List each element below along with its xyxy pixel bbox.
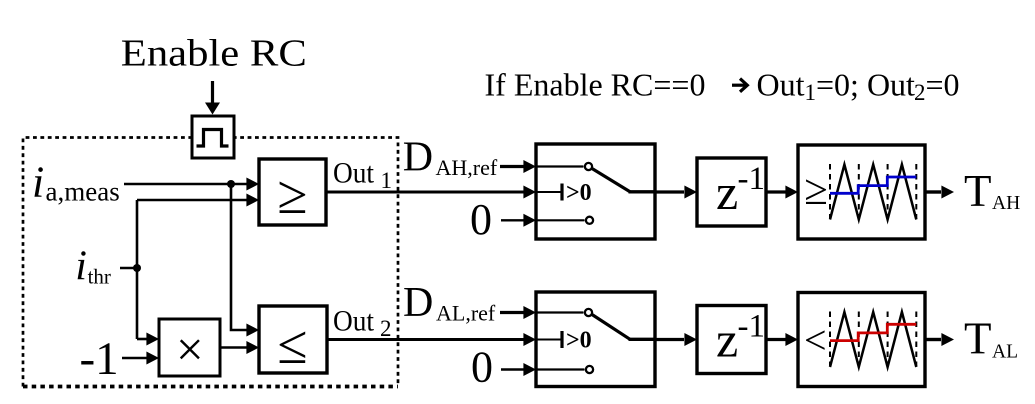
selector lever (bottom box) <box>592 315 630 340</box>
dashed enable boundary (top, left, right) <box>23 138 398 387</box>
selector control threshold bar (bottom box) <box>560 331 563 348</box>
svg-text:Enable RC: Enable RC <box>121 33 307 75</box>
wire selector to delay (top) <box>655 186 697 199</box>
sampler dashed line 4 (top) <box>915 164 917 219</box>
svg-text:-1: -1 <box>738 309 766 345</box>
svg-text:≥: ≥ <box>804 167 828 214</box>
comparator <= box <box>259 306 327 373</box>
dashed enable boundary (bottom) <box>23 385 398 389</box>
junction dot on i_a,meas wire <box>227 180 235 188</box>
svg-text:AH,ref: AH,ref <box>436 155 498 180</box>
carrier triangle wave (top) <box>830 165 916 220</box>
svg-text:<: < <box>804 318 827 363</box>
selector control line <box>536 191 562 193</box>
selector lever <box>592 169 630 192</box>
wire Out2 to lower selector control <box>327 333 536 346</box>
svg-text:i: i <box>32 158 44 207</box>
selector switch box (bottom) <box>536 292 655 387</box>
svg-text:2: 2 <box>914 80 926 105</box>
svg-text:D: D <box>403 280 433 326</box>
wire: Enable RC down arrow <box>205 81 220 115</box>
sampler box (top) <box>798 145 925 239</box>
svg-text:2: 2 <box>380 316 392 341</box>
wire 0 to selector input 2 <box>501 214 536 227</box>
selector switch box (top) <box>536 144 655 239</box>
wire sampler to T_AL <box>925 333 954 346</box>
selector control line (bottom box) <box>536 339 562 341</box>
svg-text:If Enable RC==0: If Enable RC==0 <box>485 67 706 103</box>
svg-text:>0: >0 <box>566 328 592 354</box>
selector bottom contact circle <box>586 217 593 224</box>
svg-text:=0: =0 <box>926 67 960 103</box>
svg-text:>0: >0 <box>566 180 592 206</box>
svg-text:AL,ref: AL,ref <box>436 300 496 325</box>
wire junction down to lower comparator first input <box>231 184 259 337</box>
pulse symbol <box>197 130 229 147</box>
svg-text:z: z <box>716 312 738 368</box>
note: arrow glyph <box>732 79 747 92</box>
wire D_AL,ref to lower selector input 1 <box>500 306 536 319</box>
reference step line (blue) <box>830 177 916 193</box>
carrier triangle wave (bottom) <box>830 312 916 367</box>
wire multiplier to lower comparator second input <box>220 341 259 354</box>
sampler dashed line 3 (top) <box>887 164 889 219</box>
wire i_thr to comparator second input <box>137 194 259 207</box>
selector top contact circle (bottom box) <box>585 309 592 316</box>
svg-text:AH: AH <box>992 193 1020 214</box>
svg-text:T: T <box>964 313 992 363</box>
svg-text:T: T <box>964 166 992 216</box>
svg-text:≤: ≤ <box>277 314 307 375</box>
selector bottom contact line (bottom box) <box>536 368 585 370</box>
svg-text:Out: Out <box>333 156 375 189</box>
wire delay to sampler (top) <box>766 186 798 199</box>
svg-text:Out: Out <box>333 304 375 337</box>
wire sampler to T_AH <box>925 186 954 199</box>
reference step line (red) <box>830 324 916 340</box>
wire Out1 to selector control <box>326 186 536 199</box>
selector bottom contact line <box>536 219 585 221</box>
wire 0 to lower selector input 2 <box>501 363 536 376</box>
svg-text:a,meas: a,meas <box>46 177 120 207</box>
sampler dashed line 2 (top) <box>858 164 860 219</box>
sampler dashed line 4 (bottom) <box>915 312 917 367</box>
delay box z^-1 (top) <box>697 158 766 226</box>
selector lever output stub (bottom box) <box>629 338 656 341</box>
wire i_a,meas to comparator top input <box>124 178 259 191</box>
svg-text:i: i <box>75 244 87 290</box>
junction dot i_thr <box>133 264 141 272</box>
svg-text:0: 0 <box>470 195 492 244</box>
selector top contact circle <box>585 163 592 170</box>
delay box z^-1 (bottom) <box>697 306 766 374</box>
svg-text:AL: AL <box>992 342 1018 363</box>
selector control threshold bar <box>560 184 563 201</box>
svg-text:=0; Out: =0; Out <box>816 67 915 103</box>
sampler dashed line 3 (bottom) <box>887 312 889 367</box>
svg-text:-1: -1 <box>80 333 119 385</box>
svg-text:0: 0 <box>471 342 493 391</box>
svg-text:z: z <box>716 164 738 220</box>
wire D_AH,ref to selector input 1 <box>500 160 536 173</box>
wire i_thr label stub <box>120 267 137 270</box>
wire i_thr vertical trunk <box>136 200 139 339</box>
wire selector to delay (bottom) <box>655 333 697 346</box>
sampler dashed line 1 (bottom) <box>829 312 831 367</box>
sampler dashed line 1 (top) <box>829 164 831 219</box>
svg-text:1: 1 <box>805 80 817 105</box>
sampler box (bottom) <box>798 293 925 387</box>
svg-text:thr: thr <box>88 265 111 289</box>
comparator >= box <box>259 159 326 225</box>
selector bottom contact circle (bottom box) <box>586 366 593 373</box>
wire i_thr trunk to multiplier first input <box>137 333 159 346</box>
sampler dashed line 2 (bottom) <box>858 312 860 367</box>
wire -1 to multiplier second input <box>122 352 159 365</box>
selector lever output stub <box>629 190 656 193</box>
svg-text:-1: -1 <box>738 161 766 197</box>
selector top contact line <box>536 165 584 167</box>
pulse shaper box <box>192 116 234 158</box>
svg-text:D: D <box>403 135 433 181</box>
svg-text:×: × <box>176 322 204 377</box>
selector top contact line (bottom box) <box>536 311 584 313</box>
svg-text:Out: Out <box>757 67 805 103</box>
svg-text:≥: ≥ <box>277 164 307 225</box>
wire delay to sampler (bottom) <box>766 333 798 346</box>
svg-text:1: 1 <box>381 168 393 193</box>
multiplier box <box>159 319 220 376</box>
